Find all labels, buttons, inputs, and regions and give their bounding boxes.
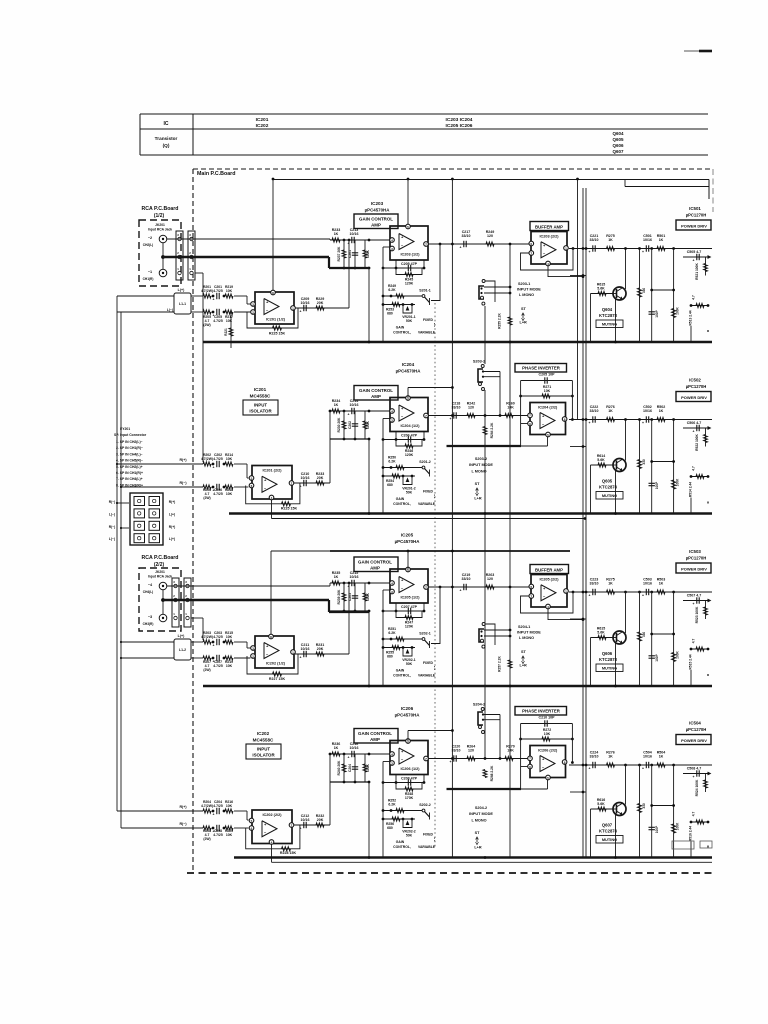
svg-text:R257 2.2K: R257 2.2K xyxy=(498,656,502,672)
wire output line ch4 xyxy=(569,764,712,766)
svg-text:IC205 (2/2): IC205 (2/2) xyxy=(540,578,560,582)
RCA board 1/2 dashed box xyxy=(139,220,181,286)
svg-text:3: 3 xyxy=(391,418,393,422)
wire gain cluster left rail xyxy=(383,761,390,763)
resistor R245 120K xyxy=(396,268,422,275)
op-amp IC204 (2/2) phase inverter xyxy=(530,403,566,435)
svg-text:µPC4570HA: µPC4570HA xyxy=(395,713,421,718)
svg-text:4.7(2W): 4.7(2W) xyxy=(201,635,213,639)
svg-text:S203-2: S203-2 xyxy=(473,360,485,364)
svg-text:JK201: JK201 xyxy=(155,570,165,574)
capacitor C201 100/6.3 xyxy=(354,240,356,268)
svg-text:6: 6 xyxy=(530,242,532,246)
wire jog to ground bus xyxy=(368,439,370,514)
resistor R254 680 xyxy=(383,475,415,477)
buffer amp title box xyxy=(530,222,569,231)
svg-text:C205 47P: C205 47P xyxy=(401,262,418,266)
svg-text:4: 4 xyxy=(391,409,393,413)
svg-text:Q607: Q607 xyxy=(612,149,624,154)
svg-text:4: 4 xyxy=(391,238,393,242)
svg-text:1K: 1K xyxy=(608,409,613,413)
svg-text:6. SP IN CH1(R)+: 6. SP IN CH1(R)+ xyxy=(116,471,143,475)
wire riser IC206 pin5 xyxy=(407,731,409,741)
svg-text:µPC1270H: µPC1270H xyxy=(686,727,707,732)
svg-text:GAIN: GAIN xyxy=(396,669,405,673)
svg-text:−2: −2 xyxy=(148,236,152,240)
resistor R-330 vertical xyxy=(639,765,641,858)
svg-text:100K: 100K xyxy=(366,420,370,429)
gain control amp title box ch4 xyxy=(354,729,398,744)
svg-text:KTC2878: KTC2878 xyxy=(599,485,618,490)
wire S204-2 contacts xyxy=(483,714,500,716)
resistor 4.7 xyxy=(691,305,709,307)
resistor 4.7 xyxy=(691,821,709,823)
transistor Q607 KTC2878 xyxy=(613,803,626,816)
wire buffer feedback loop xyxy=(572,591,575,594)
svg-text:(2W): (2W) xyxy=(203,668,210,672)
svg-text:7: 7 xyxy=(425,242,427,246)
wire output line ch2 xyxy=(569,419,712,421)
svg-text:330: 330 xyxy=(642,459,646,465)
wire muting base ch3 xyxy=(590,638,592,687)
svg-text:50K: 50K xyxy=(406,834,413,838)
svg-text:+: + xyxy=(642,421,644,425)
svg-text:IC204 (1/2): IC204 (1/2) xyxy=(401,424,421,428)
wire feedback loop IC202(2/2) xyxy=(246,825,300,849)
svg-text:7: 7 xyxy=(425,757,427,761)
svg-text:KTC2878: KTC2878 xyxy=(599,657,618,662)
svg-text:VARIABLE: VARIABLE xyxy=(418,502,436,506)
svg-text:C206 47P: C206 47P xyxy=(401,433,418,437)
svg-text:R(−): R(−) xyxy=(109,500,116,504)
wire jack link 2 xyxy=(162,590,164,614)
power driver title box xyxy=(676,563,711,573)
component outline bottom right B xyxy=(700,841,712,848)
wire chain lower xyxy=(234,827,248,829)
wire output line ch3 xyxy=(569,591,712,593)
op-amp IC206 (1/2) xyxy=(390,741,428,775)
svg-text:S203-1: S203-1 xyxy=(518,282,530,286)
svg-text:BUFFER AMP: BUFFER AMP xyxy=(535,225,563,230)
svg-text:4.7: 4.7 xyxy=(692,466,696,471)
muting label box xyxy=(596,492,623,500)
svg-text:10K: 10K xyxy=(226,833,233,837)
svg-text:20K: 20K xyxy=(317,647,324,651)
svg-text:1K: 1K xyxy=(608,238,613,242)
svg-text:1K: 1K xyxy=(334,746,339,750)
svg-text:6: 6 xyxy=(529,765,531,769)
svg-text:L(+): L(+) xyxy=(169,512,175,516)
svg-text:BUFFER AMP: BUFFER AMP xyxy=(535,568,563,573)
svg-text:MUTING: MUTING xyxy=(602,837,617,842)
svg-text:(1/2): (1/2) xyxy=(154,213,165,219)
svg-text:Q604: Q604 xyxy=(602,307,613,312)
RCA board 2/2 dashed box xyxy=(139,568,181,631)
svg-text:GAIN CONTROL: GAIN CONTROL xyxy=(359,217,393,222)
svg-text:2. SP IN CH1(R)−: 2. SP IN CH1(R)− xyxy=(116,446,143,450)
wire collector xyxy=(625,765,627,805)
wire S203-2 contacts xyxy=(483,371,500,373)
svg-text:4.7(2W): 4.7(2W) xyxy=(201,457,213,461)
svg-text:µPC1270H: µPC1270H xyxy=(686,213,707,218)
svg-text:1K: 1K xyxy=(608,582,613,586)
svg-text:120: 120 xyxy=(487,234,493,238)
svg-text:IC202 (1/2): IC202 (1/2) xyxy=(266,662,286,666)
svg-text:L(−): L(−) xyxy=(109,537,115,541)
svg-text:4.7: 4.7 xyxy=(692,295,696,300)
wire gain cluster left rail xyxy=(383,589,390,591)
svg-text:RCA P.C.Board: RCA P.C.Board xyxy=(142,555,179,561)
wire jog bus xyxy=(330,267,369,269)
svg-text:(Q): (Q) xyxy=(163,143,170,148)
capacitor C-100P vertical xyxy=(651,592,653,686)
svg-text:R521 100K: R521 100K xyxy=(695,263,699,280)
svg-text:CONTROL,: CONTROL, xyxy=(393,502,411,506)
wire phase feedback verticals xyxy=(520,724,522,790)
wire muting stub ch3 xyxy=(570,618,586,620)
svg-text:L(−): L(−) xyxy=(109,512,115,516)
svg-text:5: 5 xyxy=(251,819,253,823)
svg-text:R237 20K: R237 20K xyxy=(337,246,341,261)
svg-text:C204: C204 xyxy=(348,764,352,772)
svg-text:R514 2.44: R514 2.44 xyxy=(689,482,693,497)
svg-text:6.2K: 6.2K xyxy=(388,631,396,635)
svg-text:IC203 (2/2): IC203 (2/2) xyxy=(540,235,560,239)
svg-text:AMP: AMP xyxy=(371,223,381,228)
svg-text:1: 1 xyxy=(292,650,294,654)
svg-text:+: + xyxy=(213,830,215,834)
resistor 4.7 xyxy=(691,648,709,650)
wire riser ch3 isolator output xyxy=(348,583,350,654)
svg-text:4.7/25: 4.7/25 xyxy=(213,804,223,808)
wire vertical bus F xyxy=(585,188,587,857)
svg-text:4.7: 4.7 xyxy=(692,639,696,644)
svg-text:+: + xyxy=(589,767,591,771)
svg-text:CH4(L): CH4(L) xyxy=(143,590,153,594)
wire S203-1 contacts xyxy=(484,286,510,288)
connector EY201 grid xyxy=(130,493,163,545)
svg-text:C210 10P: C210 10P xyxy=(539,716,556,720)
resistor R225 15K xyxy=(273,326,282,330)
svg-text:4.7(2W): 4.7(2W) xyxy=(201,804,213,808)
wire ladder crossbar xyxy=(652,461,674,463)
svg-text:AMP: AMP xyxy=(370,566,380,571)
muting label box xyxy=(596,664,623,672)
svg-text:L(+): L(+) xyxy=(178,634,185,638)
svg-text:µPC4570HA: µPC4570HA xyxy=(396,369,422,374)
wire ladder bottom stub xyxy=(690,842,692,858)
potentiometer VR202-2 50K xyxy=(403,819,412,828)
Main P.C.Board dashed border xyxy=(193,168,713,170)
resistor R-330 vertical xyxy=(639,592,641,686)
svg-text:680: 680 xyxy=(387,312,393,316)
svg-text:3: 3 xyxy=(391,590,393,594)
svg-text:680: 680 xyxy=(387,483,393,487)
svg-text:L+R: L+R xyxy=(520,664,528,668)
svg-text:C505 4.7: C505 4.7 xyxy=(687,250,702,254)
svg-text:JK201: JK201 xyxy=(155,223,165,227)
resistor R247 120K xyxy=(396,611,422,618)
svg-text:10/16: 10/16 xyxy=(643,755,652,759)
svg-text:µPC1270H: µPC1270H xyxy=(686,384,707,389)
svg-text:+: + xyxy=(213,298,215,302)
svg-text:IC204: IC204 xyxy=(402,362,415,367)
svg-text:KTC2878: KTC2878 xyxy=(599,829,618,834)
capacitor C-100P vertical xyxy=(651,420,653,514)
resistor R248 170K xyxy=(396,783,422,790)
wire ladder bottom stub xyxy=(690,326,692,342)
svg-text:Q606: Q606 xyxy=(602,651,613,656)
svg-text:S201-1: S201-1 xyxy=(419,289,431,293)
wire ch3 signal from jack xyxy=(167,585,330,587)
svg-text:VARIABLE: VARIABLE xyxy=(418,331,436,335)
svg-text:IC502: IC502 xyxy=(689,378,701,383)
svg-text:+: + xyxy=(213,314,215,318)
svg-text:4.7: 4.7 xyxy=(692,812,696,817)
wire muting stub ch4 xyxy=(570,791,586,793)
svg-text:20K: 20K xyxy=(317,301,324,305)
svg-text:IC203 IC204: IC203 IC204 xyxy=(446,117,473,123)
svg-text:L(+): L(+) xyxy=(178,288,185,292)
wire emitter to bus xyxy=(615,471,617,514)
svg-text:+: + xyxy=(348,756,350,760)
svg-text:+: + xyxy=(642,767,644,771)
wire collector xyxy=(625,420,627,461)
svg-text:CONTROL,: CONTROL, xyxy=(393,674,411,678)
wire chain upper xyxy=(202,295,204,297)
wire gain output line ch3 xyxy=(428,586,530,588)
svg-text:1K: 1K xyxy=(659,238,664,242)
svg-text:L(+): L(+) xyxy=(169,537,175,541)
transistor Q606 KTC2878 xyxy=(613,631,626,644)
wire muting stub ch2 xyxy=(570,446,586,448)
wire buffer pin4 stub xyxy=(548,266,583,277)
svg-text:50K: 50K xyxy=(406,319,413,323)
op-amp IC205 (2/2) buffer xyxy=(531,575,567,608)
wire riser IC204 pin5 xyxy=(407,388,409,398)
wire jog to ground bus xyxy=(368,611,370,686)
op-amp IC203 (2/2) buffer xyxy=(531,232,567,265)
wire gain input line ch1 xyxy=(330,239,390,241)
svg-text:GAIN CONTROL: GAIN CONTROL xyxy=(358,731,392,736)
svg-text:PHASE INVERTER: PHASE INVERTER xyxy=(522,366,561,371)
svg-text:+: + xyxy=(348,413,350,417)
svg-text:MC4558C: MC4558C xyxy=(253,738,274,743)
svg-text:S201-2: S201-2 xyxy=(419,460,431,464)
wire phase feedback verticals xyxy=(520,381,522,447)
resistor R227 15K xyxy=(273,672,282,676)
wire buffer feedback loop xyxy=(572,247,575,250)
svg-text:IC205 (1/2): IC205 (1/2) xyxy=(401,596,421,600)
svg-text:10K: 10K xyxy=(226,457,233,461)
wire hook to gain switch xyxy=(439,243,442,246)
svg-text:POWER DRIV: POWER DRIV xyxy=(681,224,707,229)
svg-text:3. SP IN CH4(L)−: 3. SP IN CH4(L)− xyxy=(116,452,143,456)
svg-text:1K: 1K xyxy=(334,232,339,236)
thick ground bus ch2 xyxy=(229,512,712,515)
svg-text:L+R: L+R xyxy=(474,846,482,850)
wire chain upper xyxy=(202,463,204,465)
resistor R246 120K xyxy=(396,440,422,447)
wire isolator ch2 output line xyxy=(293,482,330,484)
svg-text:7: 7 xyxy=(425,585,427,589)
svg-text:6.2K: 6.2K xyxy=(388,460,396,464)
svg-text:8: 8 xyxy=(272,291,274,295)
svg-text:7: 7 xyxy=(530,251,532,255)
svg-text:680: 680 xyxy=(387,826,393,830)
svg-text:100K: 100K xyxy=(676,478,680,486)
resistor R242 100K xyxy=(364,411,366,439)
svg-text:120: 120 xyxy=(468,749,474,753)
svg-text:R(+): R(+) xyxy=(169,525,176,529)
resistor R521 100K xyxy=(705,257,707,276)
svg-text:120K: 120K xyxy=(405,453,414,457)
svg-text:33/10: 33/10 xyxy=(462,234,471,238)
op-amp IC205 (1/2) xyxy=(390,569,428,603)
svg-text:Q604: Q604 xyxy=(612,131,624,136)
svg-text:R513 2.44: R513 2.44 xyxy=(689,310,693,325)
svg-text:IC202 (2/2): IC202 (2/2) xyxy=(263,813,283,817)
gain control amp title box ch2 xyxy=(354,386,398,401)
svg-text:1: 1 xyxy=(565,246,567,250)
svg-text:+: + xyxy=(460,246,462,250)
wire riser IC203 pin5 xyxy=(407,179,409,227)
wire riser IC205 pin5 xyxy=(407,551,409,569)
svg-text:C205 10P: C205 10P xyxy=(539,373,556,377)
svg-text:INPUT MODE: INPUT MODE xyxy=(517,288,541,292)
svg-text:+: + xyxy=(300,310,302,314)
svg-text:Main P.C.Board: Main P.C.Board xyxy=(197,171,235,177)
power driver title box xyxy=(676,392,711,402)
resistor R240 20K xyxy=(343,754,345,782)
svg-text:4: 4 xyxy=(271,840,273,844)
transistor Q605 KTC2878 xyxy=(613,459,626,472)
svg-text:100K: 100K xyxy=(676,822,680,830)
svg-text:33/10: 33/10 xyxy=(590,238,599,242)
svg-text:IC205 IC206: IC205 IC206 xyxy=(446,123,473,129)
wire left vertical feed B xyxy=(120,312,122,828)
svg-text:10/16: 10/16 xyxy=(643,238,652,242)
svg-text:R522 100K: R522 100K xyxy=(695,434,699,451)
svg-text:S204-2: S204-2 xyxy=(473,703,485,707)
wire chain upper xyxy=(202,810,204,812)
svg-text:10/16: 10/16 xyxy=(301,818,310,822)
svg-text:10K: 10K xyxy=(226,492,233,496)
wire rail ch3 xyxy=(271,550,330,552)
svg-text:ST: ST xyxy=(521,650,527,654)
svg-text:+: + xyxy=(589,250,591,254)
svg-text:+: + xyxy=(450,760,452,764)
svg-text:10K: 10K xyxy=(226,635,233,639)
svg-text:IC206: IC206 xyxy=(401,706,414,711)
svg-text:µPC4570HA: µPC4570HA xyxy=(395,539,421,544)
svg-text:10/16: 10/16 xyxy=(350,575,359,579)
svg-text:4: 4 xyxy=(391,752,393,756)
svg-text:R(+): R(+) xyxy=(179,458,187,462)
svg-text:IC206 (2/2): IC206 (2/2) xyxy=(538,749,558,753)
svg-text:µPC1270H: µPC1270H xyxy=(686,556,707,561)
wire feedback loop IC201(1/2) xyxy=(247,308,298,328)
svg-text:L MONO: L MONO xyxy=(471,470,486,474)
resistor R-100K vertical xyxy=(673,592,675,686)
svg-text:C507 4.7: C507 4.7 xyxy=(687,594,702,598)
wire pin1 down 2 xyxy=(191,617,203,619)
svg-text:L+R: L+R xyxy=(474,497,482,501)
svg-text:Q606: Q606 xyxy=(612,143,624,148)
svg-text:100P: 100P xyxy=(655,653,659,661)
wire riser IC202 pin8 xyxy=(270,551,272,637)
svg-text:L MONO: L MONO xyxy=(519,293,534,297)
svg-text:IC501: IC501 xyxy=(689,206,701,211)
wire muting stub ch1 xyxy=(570,275,586,277)
svg-text:R(+): R(+) xyxy=(179,805,187,809)
svg-text:10/16: 10/16 xyxy=(301,476,310,480)
svg-text:6.2K: 6.2K xyxy=(388,288,396,292)
svg-text:3: 3 xyxy=(391,761,393,765)
op-amp IC201 (2/2) input isolator xyxy=(252,466,292,500)
wire riser IC201 pin8 xyxy=(272,179,274,292)
resistor 4.7 xyxy=(691,476,709,478)
svg-text:R516 2.44: R516 2.44 xyxy=(689,826,693,841)
svg-text:MUTING: MUTING xyxy=(602,666,617,671)
thick mid bus xyxy=(447,788,522,790)
svg-text:GAIN: GAIN xyxy=(396,326,405,330)
svg-text:R515 2.44: R515 2.44 xyxy=(689,654,693,669)
resistor R-330 vertical xyxy=(639,249,641,343)
wire gain input line ch3 xyxy=(330,582,390,584)
svg-text:L MONO: L MONO xyxy=(471,819,486,823)
svg-text:100K: 100K xyxy=(366,763,370,772)
wire pin1 down xyxy=(195,272,203,274)
svg-text:KTC2878: KTC2878 xyxy=(599,313,618,318)
resistor R-100K vertical xyxy=(673,249,675,343)
op-amp IC206 (2/2) phase inverter xyxy=(530,746,566,778)
wire gain output line ch2 xyxy=(428,415,530,417)
svg-text:R264 2.2K: R264 2.2K xyxy=(490,422,494,438)
op-amp IC203 (1/2) xyxy=(390,226,428,260)
svg-text:MUTING: MUTING xyxy=(602,493,617,498)
svg-text:(2W): (2W) xyxy=(203,837,210,841)
svg-text:R(−): R(−) xyxy=(109,525,116,529)
wire riser ch2 isolator output xyxy=(329,411,331,483)
wire isolator pin4 bias line ch4 xyxy=(271,844,273,862)
wire isolator ch1 output line xyxy=(295,307,349,309)
svg-text:100K: 100K xyxy=(366,592,370,601)
svg-text:7. SP IN CH4(L)+: 7. SP IN CH4(L)+ xyxy=(116,477,143,481)
svg-text:+: + xyxy=(213,660,215,664)
resistor R239 20K xyxy=(343,583,345,611)
wire feedback loop IC202(1/2) xyxy=(247,654,298,674)
svg-text:+: + xyxy=(213,813,215,817)
svg-text:R221: R221 xyxy=(224,328,228,336)
svg-text:ISOLATOR: ISOLATOR xyxy=(252,753,275,758)
resistor R524 100K xyxy=(705,774,707,793)
capacitor C-100P vertical xyxy=(651,765,653,858)
svg-text:330: 330 xyxy=(642,288,646,294)
svg-text:33/10: 33/10 xyxy=(452,749,461,753)
wire feedback loop IC201(2/2) xyxy=(246,483,300,504)
svg-text:4.7/25: 4.7/25 xyxy=(213,492,223,496)
resistor R230 20K xyxy=(343,411,345,439)
wire sp feed down to ch4 xyxy=(117,810,203,812)
svg-text:8: 8 xyxy=(564,417,566,421)
svg-text:EY201: EY201 xyxy=(120,427,130,431)
resistor R221 vertical xyxy=(230,312,232,348)
potentiometer VR201-1 50K xyxy=(403,305,412,314)
svg-text:PHASE INVERTER: PHASE INVERTER xyxy=(522,709,561,714)
svg-text:R230 20K: R230 20K xyxy=(337,417,341,432)
svg-text:4. SP IN CH5(R)−: 4. SP IN CH5(R)− xyxy=(116,459,143,463)
